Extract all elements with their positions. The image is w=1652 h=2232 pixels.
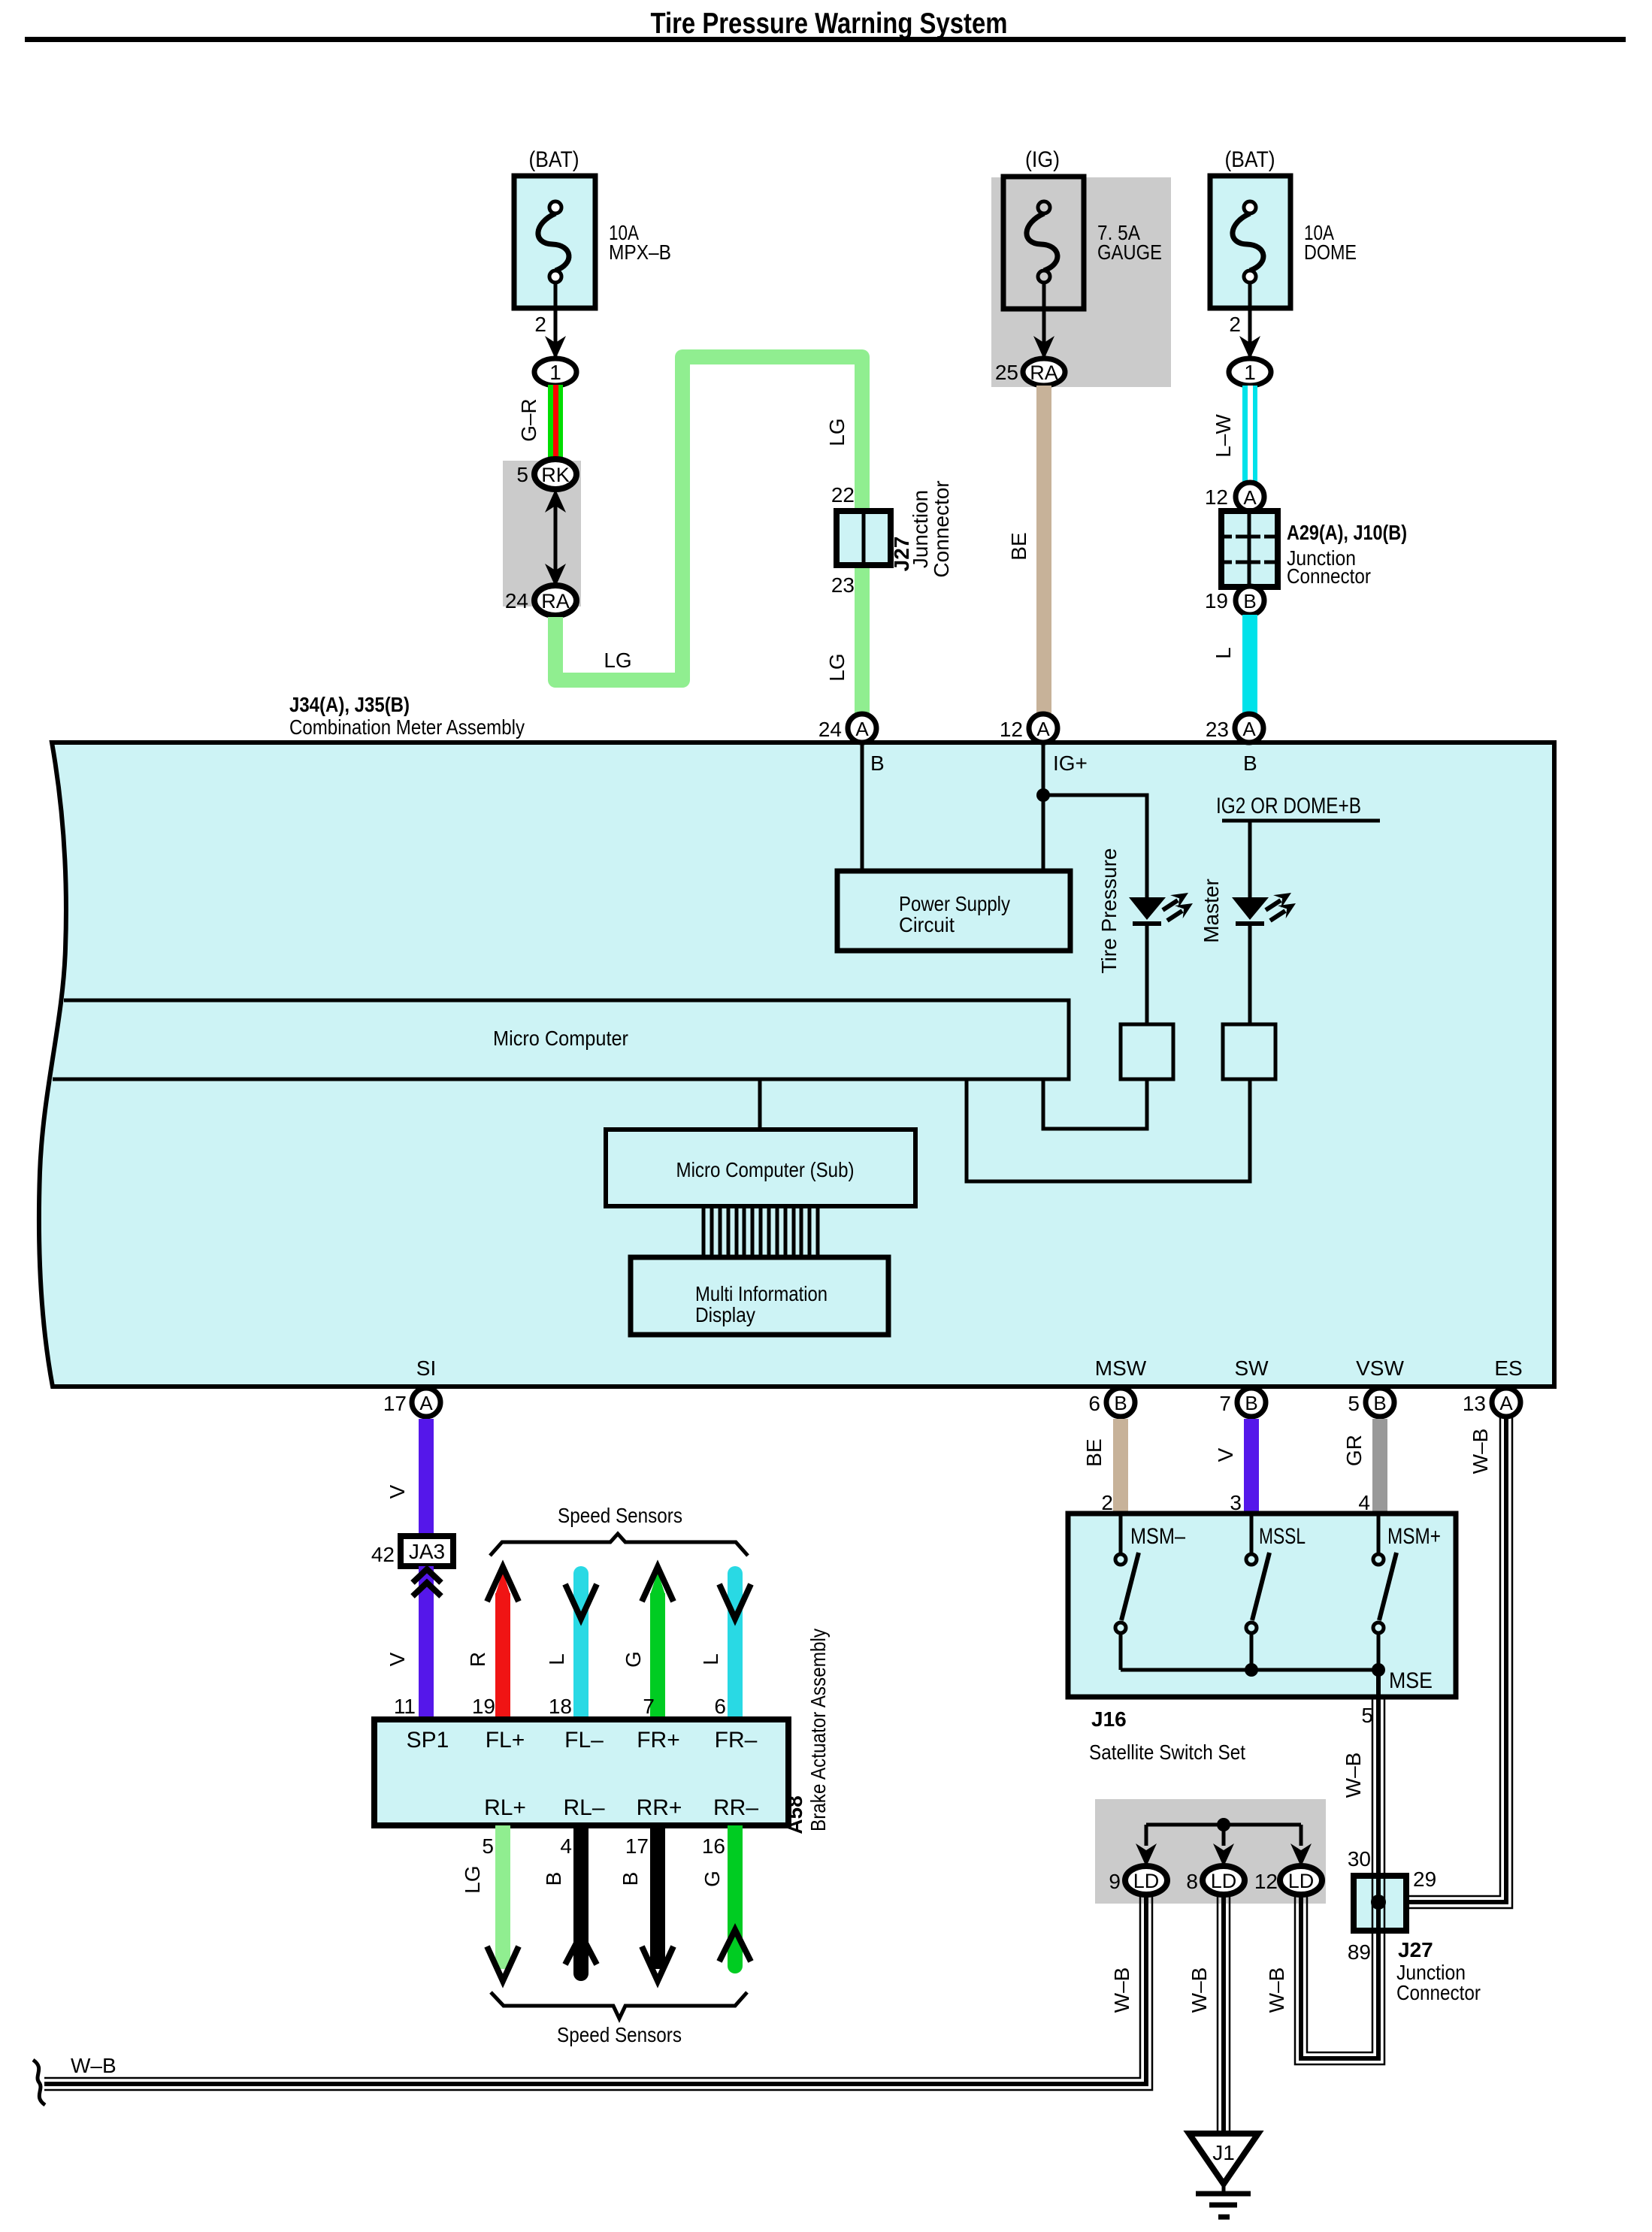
svg-text:MSE: MSE (1389, 1668, 1433, 1693)
svg-text:BE: BE (1082, 1438, 1106, 1466)
svg-text:J34(A), J35(B): J34(A), J35(B) (289, 693, 410, 716)
svg-text:W–B: W–B (71, 2054, 116, 2077)
svg-text:G: G (622, 1651, 645, 1668)
svg-text:BE: BE (1007, 532, 1030, 560)
svg-text:V: V (386, 1652, 409, 1666)
svg-text:5: 5 (516, 463, 528, 486)
svg-text:2: 2 (1101, 1491, 1113, 1514)
svg-text:Connector: Connector (1287, 564, 1371, 588)
svg-text:Master: Master (1200, 879, 1223, 943)
svg-text:19: 19 (472, 1695, 495, 1718)
svg-text:W–B: W–B (1342, 1753, 1365, 1798)
svg-text:5: 5 (1361, 1704, 1373, 1727)
svg-text:A: A (1242, 718, 1256, 740)
svg-text:W–B: W–B (1469, 1429, 1492, 1474)
svg-text:A: A (1243, 486, 1257, 509)
svg-text:B: B (1245, 1392, 1257, 1414)
svg-text:23: 23 (831, 573, 855, 597)
svg-text:13: 13 (1463, 1392, 1486, 1415)
svg-text:2: 2 (534, 313, 546, 336)
svg-text:V: V (1214, 1447, 1237, 1462)
svg-text:LD: LD (1288, 1870, 1315, 1892)
svg-text:MPX–B: MPX–B (609, 240, 671, 264)
svg-text:Micro Computer: Micro Computer (493, 1027, 628, 1050)
svg-text:SI: SI (416, 1356, 436, 1380)
svg-text:RL+: RL+ (484, 1795, 526, 1820)
svg-text:Satellite Switch Set: Satellite Switch Set (1089, 1741, 1245, 1764)
svg-text:G: G (700, 1871, 724, 1887)
svg-text:3: 3 (1230, 1491, 1242, 1514)
svg-text:MSM–: MSM– (1130, 1524, 1185, 1549)
svg-text:A: A (855, 718, 869, 740)
svg-text:LD: LD (1211, 1870, 1237, 1892)
svg-text:LG: LG (825, 653, 849, 681)
svg-text:29: 29 (1413, 1868, 1436, 1891)
svg-text:L: L (1212, 647, 1235, 659)
svg-text:L: L (699, 1653, 722, 1665)
svg-text:4: 4 (1358, 1491, 1370, 1514)
svg-text:Power Supply: Power Supply (899, 892, 1010, 915)
svg-text:19: 19 (1205, 589, 1228, 612)
svg-text:12: 12 (1205, 485, 1228, 509)
svg-text:23: 23 (1206, 718, 1229, 741)
svg-text:5: 5 (482, 1834, 494, 1858)
svg-text:RA: RA (1030, 361, 1058, 384)
svg-text:16: 16 (702, 1834, 725, 1858)
svg-text:Speed Sensors: Speed Sensors (558, 1504, 682, 1527)
svg-text:30: 30 (1348, 1847, 1371, 1871)
svg-text:17: 17 (625, 1834, 649, 1858)
svg-text:ES: ES (1494, 1356, 1522, 1380)
svg-text:Junction: Junction (909, 490, 932, 568)
svg-text:Tire Pressure: Tire Pressure (1097, 848, 1121, 973)
svg-text:LD: LD (1133, 1870, 1160, 1892)
svg-text:(IG): (IG) (1025, 147, 1060, 172)
svg-text:DOME: DOME (1304, 240, 1357, 264)
svg-text:A: A (419, 1392, 433, 1414)
svg-text:42: 42 (371, 1543, 395, 1566)
svg-text:Display: Display (695, 1303, 755, 1326)
svg-text:FR+: FR+ (637, 1728, 680, 1753)
svg-text:5: 5 (1348, 1392, 1360, 1415)
svg-text:12: 12 (1254, 1870, 1278, 1893)
svg-text:Connector: Connector (930, 480, 953, 577)
svg-text:W–B: W–B (1265, 1967, 1288, 2013)
svg-text:Tire Pressure Warning System: Tire Pressure Warning System (651, 8, 1008, 40)
svg-text:Combination Meter Assembly: Combination Meter Assembly (289, 715, 525, 739)
svg-text:L: L (545, 1653, 568, 1665)
svg-text:LG: LG (825, 418, 849, 446)
svg-text:RL–: RL– (563, 1795, 604, 1820)
svg-text:Brake Actuator Assembly: Brake Actuator Assembly (806, 1629, 830, 1831)
svg-text:MSW: MSW (1095, 1356, 1147, 1380)
svg-text:22: 22 (831, 483, 855, 507)
svg-text:Connector: Connector (1396, 1981, 1481, 2004)
svg-text:L–W: L–W (1212, 414, 1235, 458)
svg-text:FL–: FL– (564, 1728, 604, 1753)
svg-text:Circuit: Circuit (899, 913, 955, 936)
svg-text:R: R (466, 1652, 489, 1667)
svg-text:B: B (542, 1872, 565, 1886)
svg-text:B: B (619, 1872, 642, 1886)
svg-text:B: B (1243, 590, 1256, 612)
svg-text:FR–: FR– (715, 1728, 758, 1753)
svg-text:B: B (1114, 1392, 1127, 1414)
svg-text:1: 1 (549, 361, 561, 384)
svg-text:24: 24 (818, 718, 842, 741)
svg-text:(BAT): (BAT) (529, 147, 579, 172)
svg-text:7: 7 (1219, 1392, 1231, 1415)
svg-text:6: 6 (1088, 1392, 1100, 1415)
svg-text:89: 89 (1348, 1940, 1371, 1964)
svg-text:A: A (1499, 1392, 1513, 1414)
svg-text:A29(A), J10(B): A29(A), J10(B) (1287, 521, 1407, 544)
svg-text:J16: J16 (1091, 1707, 1127, 1731)
svg-text:B: B (1243, 752, 1257, 775)
svg-text:MSM+: MSM+ (1387, 1524, 1441, 1549)
svg-text:FL+: FL+ (486, 1728, 525, 1753)
svg-text:RA: RA (541, 590, 570, 612)
svg-text:IG+: IG+ (1053, 752, 1088, 775)
svg-text:11: 11 (394, 1695, 416, 1718)
svg-text:SW: SW (1234, 1356, 1269, 1380)
svg-text:RR–: RR– (713, 1795, 758, 1820)
svg-text:A: A (1036, 718, 1050, 740)
svg-text:4: 4 (560, 1834, 572, 1858)
svg-text:J27: J27 (1398, 1938, 1433, 1961)
svg-text:RK: RK (541, 464, 570, 486)
svg-text:W–B: W–B (1188, 1967, 1211, 2013)
svg-text:GAUGE: GAUGE (1097, 240, 1162, 264)
svg-text:(BAT): (BAT) (1225, 147, 1275, 172)
svg-text:RR+: RR+ (637, 1795, 682, 1820)
svg-text:A58: A58 (783, 1795, 806, 1834)
svg-text:W–B: W–B (1110, 1967, 1133, 2013)
svg-text:12: 12 (1000, 718, 1023, 741)
svg-text:G–R: G–R (517, 398, 540, 442)
svg-text:17: 17 (383, 1392, 407, 1415)
svg-text:SP1: SP1 (407, 1728, 449, 1753)
svg-text:6: 6 (714, 1695, 726, 1718)
svg-text:1: 1 (1244, 361, 1256, 384)
svg-text:7: 7 (643, 1695, 655, 1718)
svg-text:8: 8 (1186, 1870, 1198, 1893)
svg-text:Micro Computer (Sub): Micro Computer (Sub) (676, 1158, 855, 1181)
svg-text:24: 24 (505, 589, 528, 612)
svg-text:9: 9 (1109, 1870, 1121, 1893)
svg-text:MSSL: MSSL (1259, 1524, 1306, 1549)
svg-text:25: 25 (995, 361, 1018, 384)
svg-text:B: B (870, 752, 885, 775)
svg-text:2: 2 (1229, 313, 1241, 336)
svg-text:VSW: VSW (1356, 1356, 1404, 1380)
svg-text:GR: GR (1342, 1435, 1366, 1466)
svg-text:LG: LG (461, 1865, 484, 1893)
svg-text:V: V (386, 1484, 409, 1499)
svg-text:IG2 OR DOME+B: IG2 OR DOME+B (1216, 794, 1361, 818)
svg-text:18: 18 (549, 1695, 572, 1718)
svg-text:Speed Sensors: Speed Sensors (557, 2023, 682, 2046)
svg-text:LG: LG (604, 649, 631, 672)
svg-text:B: B (1373, 1392, 1386, 1414)
svg-text:J1: J1 (1212, 2141, 1235, 2164)
svg-text:Multi Information: Multi Information (695, 1282, 828, 1305)
svg-text:JA3: JA3 (409, 1540, 445, 1563)
